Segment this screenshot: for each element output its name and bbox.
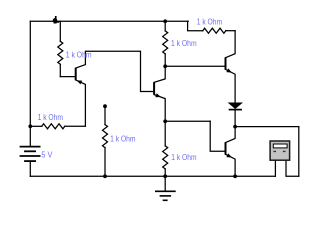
- diode D1 lead to node C: [234, 110, 236, 127]
- buzzer X1 display: [273, 144, 287, 148]
- transistor Q1 PNP bar: [75, 68, 77, 80]
- resistor R6 bottom lead: [164, 169, 166, 176]
- wire Q4 collector up to node C: [226, 127, 236, 143]
- buzzer X1 body: [270, 141, 290, 160]
- node Q2 emitter junction: [163, 119, 167, 123]
- wire battery bottom stem: [29, 161, 31, 176]
- wire hook wing: [54, 21, 60, 23]
- transistor Q2 emitter arrow: [155, 93, 161, 97]
- wire Q1 collector to Q2 base: [76, 51, 154, 91]
- wire Q1 base: [60, 76, 75, 78]
- resistor R4 bottom lead: [164, 54, 166, 66]
- wire hook stub: [55, 16, 57, 19]
- resistor R4 1kOhm zigzag: [163, 31, 168, 54]
- wire Q3 collector up: [226, 31, 236, 58]
- node Q4 emitter bottom junction: [233, 174, 237, 178]
- resistor R3 1kOhm zigzag: [103, 125, 108, 148]
- ground bars: [155, 191, 176, 200]
- resistor R6 1kOhm zigzag: [163, 146, 168, 169]
- resistor R2 1kOhm left lead: [30, 125, 42, 127]
- wire Q4 emitter down: [226, 154, 236, 176]
- node C diode junction: [233, 125, 237, 129]
- battery V1 plates: [20, 147, 41, 162]
- wire bottom right to buzzer right pin: [286, 160, 299, 176]
- transistor Q3 NPN bar: [225, 58, 227, 70]
- svg-text:1 k Ohm: 1 k Ohm: [66, 50, 92, 59]
- wire top rail: [30, 20, 188, 22]
- resistor R4 1kOhm top lead: [164, 21, 166, 31]
- resistor R3 1kOhm top lead: [104, 106, 106, 124]
- transistor Q4 NPN bar: [225, 142, 227, 154]
- node ground junction: [163, 174, 167, 178]
- transistor Q4 emitter arrow: [226, 153, 232, 157]
- svg-text:1 k Ohm: 1 k Ohm: [171, 39, 197, 48]
- wire Q2 emitter node right: [165, 120, 210, 122]
- node junction top rail: [163, 19, 167, 23]
- node R3 top terminal: [103, 104, 107, 108]
- svg-text:1 k Ohm: 1 k Ohm: [110, 134, 136, 143]
- resistor R1 bottom lead: [59, 64, 61, 76]
- svg-text:5 V: 5 V: [41, 150, 52, 159]
- wire Q2 emitter down: [154, 95, 165, 122]
- wire bottom rail: [30, 175, 275, 177]
- wire right rail down: [298, 127, 300, 177]
- node R3 bottom junction: [103, 174, 107, 178]
- wire hook blob: [53, 18, 58, 23]
- resistor R2 right lead: [65, 125, 86, 127]
- node junction left rail to R2: [28, 124, 32, 128]
- diode D1 cathode bar: [229, 109, 242, 111]
- ground stem: [164, 176, 166, 191]
- wire Q2 collector up: [154, 66, 165, 82]
- transistor Q1 emitter arrow: [77, 80, 83, 84]
- wire down to Q4 base: [210, 121, 225, 151]
- node B junction: [163, 64, 167, 68]
- transistor Q2 NPN bar: [153, 82, 155, 94]
- buzzer X1 button marks: [273, 151, 285, 152]
- resistor R2 1kOhm zigzag: [42, 124, 65, 129]
- wire Q1 emitter down: [76, 80, 86, 126]
- svg-text:1 k Ohm: 1 k Ohm: [197, 18, 222, 27]
- resistor R1 1kOhm zigzag: [58, 41, 63, 64]
- resistor R5 right lead: [226, 30, 235, 32]
- wire left rail: [29, 21, 31, 146]
- wire node C to right rail: [235, 126, 299, 128]
- diode D1 triangle: [229, 103, 242, 109]
- transistor Q3 emitter arrow: [226, 68, 232, 72]
- resistor R1 1kOhm top lead: [59, 21, 61, 41]
- resistor R5 1kOhm zigzag: [203, 28, 226, 33]
- resistor R5 1kOhm drop from top rail: [188, 21, 203, 30]
- svg-text:1 k Ohm: 1 k Ohm: [38, 113, 64, 122]
- wire buzzer left pin: [274, 160, 276, 176]
- wire Q3 emitter to diode: [226, 69, 236, 103]
- wire node B to Q3 base: [165, 65, 225, 67]
- resistor R6 1kOhm top lead: [164, 121, 166, 146]
- svg-text:1 k Ohm: 1 k Ohm: [171, 153, 196, 162]
- resistor R3 bottom lead: [104, 148, 106, 177]
